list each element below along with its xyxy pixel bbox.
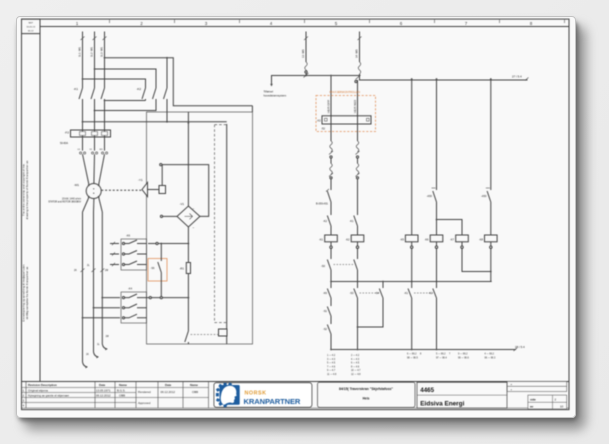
wires to terminals [82,137,84,151]
svg-text:7: 7 [465,21,468,26]
rotor cable marks [81,269,105,273]
reference rows top right [507,382,567,392]
svg-text:-K1: -K1 [349,219,354,223]
svg-text:4 — 4.3: 4 — 4.3 [351,359,360,361]
interlock contact K2 [327,214,331,235]
svg-text:4 — 96.2: 4 — 96.2 [485,354,495,356]
rectifier DC minus lead [163,215,177,217]
interlock contact K1 [354,179,358,235]
svg-text:V1: V1 [90,149,93,151]
svg-text:-K2: -K2 [136,87,141,91]
svg-text:8: 8 [420,354,422,356]
page number box [528,395,567,409]
motor leads top [83,154,90,185]
svg-text:1: 1 [23,389,25,393]
brake feed from L3 branch [167,58,252,106]
svg-text:W1: W1 [100,149,104,151]
top-left stamp texts [26,22,36,32]
rotor wire M [102,212,107,349]
svg-text:-K5: -K5 [400,238,405,242]
svg-text:5: 5 [335,21,338,26]
svg-text:6: 6 [400,21,403,26]
svg-text:7: 7 [449,354,451,356]
svg-text:~: ~ [193,207,195,211]
contactor K2 contacts [136,84,167,101]
svg-text:10: 10 [560,404,564,408]
svg-text:3 — 4.3: 3 — 4.3 [327,359,336,361]
svg-text:NKP: NKP [28,22,33,24]
bottom bus [331,349,516,351]
svg-text:8: 8 [530,21,533,26]
svg-text:-K7: -K7 [450,238,455,242]
svg-text:1L3 -W1: 1L3 -W1 [100,46,104,57]
svg-text:Name: Name [119,383,127,387]
svg-text:-S3: -S3 [349,291,354,295]
svg-text:06-12: 06-12 [28,30,34,32]
left rung lower contacts [327,282,331,305]
svg-text:-M1: -M1 [74,183,79,187]
svg-text:HEIS OPP: HEIS OPP [327,100,331,113]
link row to aux block [148,243,156,245]
svg-text:FRA FJERNKONTROLLEN: FRA FJERNKONTROLLEN [330,90,361,94]
svg-text:97 — 96.4: 97 — 96.4 [436,358,447,360]
svg-text:-K6: -K6 [323,291,328,295]
svg-text:3: 3 [23,399,25,403]
svg-text:U1: U1 [78,149,82,151]
enclosure box [147,112,253,344]
svg-text:side: side [530,397,536,401]
svg-text:hovedstrømsystem: hovedstrømsystem [264,94,287,98]
svg-text:6 — 4.5: 6 — 4.5 [351,363,360,365]
svg-text:B-059-A51: B-059-A51 [316,203,329,206]
branch row3 [83,317,121,319]
svg-text:skriftlig samtykke fra Norsk K: skriftlig samtykke fra Norsk Kranpartner… [25,266,29,319]
svg-text:10 — 4.7: 10 — 4.7 [351,370,361,372]
svg-text:Revision Description: Revision Description [28,383,57,387]
svg-text:3: 3 [205,21,208,26]
branch to aux block K4 row1 [102,297,120,299]
svg-text:-A50: -A50 [427,194,433,198]
feed corner join [251,106,253,112]
below coils [330,242,332,246]
branch row2 [94,307,121,309]
svg-text:06.12.2012: 06.12.2012 [96,394,111,398]
dashed link motor to brake [101,189,142,191]
logo gear tile with head profile [216,382,240,407]
svg-text:-X2: -X2 [317,118,322,122]
svg-text:-K8: -K8 [479,238,484,242]
top control bus [306,76,528,81]
K2 return wires [105,100,146,102]
right rung 1 [411,79,413,235]
branch L1 to K2 [83,79,146,84]
aux contact block lower [121,287,147,324]
cable slash marks [81,37,107,41]
feed cable labels [301,49,359,58]
svg-text:-S0: -S0 [321,264,326,268]
branch to rung 3 [437,220,463,236]
svg-text:Date: Date [165,383,172,387]
orange highlight small [148,259,167,282]
svg-text:-R1: -R1 [179,267,184,271]
svg-text:/52: /52 [322,128,326,131]
arrow to main supply [272,76,307,85]
coil K1 [325,235,338,242]
terminals X1 [80,152,108,154]
svg-text:1 — 4.2: 1 — 4.2 [327,355,336,357]
svg-text:1: 1 [76,21,79,26]
svg-text:-K1: -K1 [73,87,78,91]
rung S4 [358,282,384,328]
svg-text:Nytegning av gamle el skjemaer: Nytegning av gamle el skjemaer [28,394,69,398]
svg-text:27 / 5.4: 27 / 5.4 [512,75,522,79]
contactor K1 contacts [73,84,104,104]
control feed wire U [305,32,307,63]
svg-text:11 — 4.8: 11 — 4.8 [327,374,337,376]
svg-text:8 — 4.6: 8 — 4.6 [351,366,360,368]
svg-text:OBB: OBB [192,390,198,394]
svg-text:2: 2 [23,394,25,398]
overload relay F2 [71,130,111,137]
coil K6 [430,235,443,242]
emergency stop contact [327,179,331,214]
rectifier V1 [177,206,200,227]
svg-text:-F2: -F2 [65,131,70,135]
svg-text:4: 4 [270,21,273,26]
mains continue to F2 [82,104,84,130]
branch L2 to K2 [95,69,157,84]
svg-text:4: 4 [23,404,25,408]
rung wires below strip [330,124,332,141]
revision table [22,382,570,409]
svg-text:Original skjema: Original skjema [28,389,48,393]
svg-text:1K: 1K [86,354,89,356]
svg-text:9 — 96.2: 9 — 96.2 [458,354,468,356]
svg-text:KRANPARTNER: KRANPARTNER [244,397,301,406]
svg-text:-Y1: -Y1 [138,178,143,182]
customer box [417,382,507,408]
svg-text:1L: 1L [97,344,100,346]
svg-text:Approved: Approved [138,401,151,405]
brake resistor R1 [187,227,189,263]
svg-text:-K6: -K6 [126,234,131,238]
svg-text:Eidsiva Energi: Eidsiva Energi [420,400,464,407]
control feed wire V [359,32,361,63]
svg-text:Tilførsel: Tilførsel [264,90,274,94]
wire down inside duct [226,124,228,329]
svg-text:13 -W5: 13 -W5 [301,49,305,58]
brake micro switch [160,243,162,245]
svg-text:7 — 4.6: 7 — 4.6 [327,366,336,368]
svg-text:5 — 96.2: 5 — 96.2 [436,354,446,356]
svg-text:-K2: -K2 [323,219,328,223]
rectifier feed vertical [187,112,189,206]
svg-text:98 — 96.5: 98 — 96.5 [407,358,418,360]
svg-text:-A50: -A50 [481,194,487,198]
dashed actuator link [191,334,219,336]
svg-text:12 — 4.8: 12 — 4.8 [351,374,361,376]
drops to remote box [330,76,332,116]
remote control highlight box [316,96,376,132]
cable label W1 [78,46,104,57]
svg-text:99 — 96.6: 99 — 96.6 [458,358,469,360]
motor leads bottom [83,197,90,212]
svg-text:-S2: -S2 [323,327,328,331]
svg-text:-S6: -S6 [151,267,156,270]
svg-text:HEIS NED: HEIS NED [353,100,357,113]
brake Y1 [142,183,148,197]
svg-text:2 — 4.2: 2 — 4.2 [351,355,360,357]
terminal reference texts [327,354,496,376]
motor M1 [86,184,101,199]
svg-text:13-05-13: 13-05-13 [26,26,36,28]
drawing frame [22,19,570,410]
rotor wire L [94,212,99,357]
supply wire L2 [94,32,96,85]
svg-text:84/15( Traverskran "Skjefstafo: 84/15( Traverskran "Skjefstafoss" [339,387,393,391]
svg-text:Rendered: Rendered [138,390,151,394]
contacts below mid bus right [408,282,412,350]
svg-text:2: 2 [140,21,143,26]
limit switch contact [185,331,189,342]
brake feed tap [83,121,227,123]
svg-text:drawing is the property of Nor: drawing is the property of Norsk Kranpar… [25,160,29,219]
coil K2 [351,235,364,242]
inner dashed partition [214,125,216,323]
svg-text:9 — 4.7: 9 — 4.7 [327,370,336,372]
svg-text:-K4: -K4 [128,287,133,291]
right rung 4 with timer contact [487,79,491,235]
svg-text:B.G.S.: B.G.S. [117,389,126,393]
svg-text:-K1: -K1 [404,291,409,295]
svg-text:-K1: -K1 [319,238,324,242]
svg-text:6 — 96.2: 6 — 96.2 [407,354,417,356]
svg-text:2L: 2L [87,265,90,267]
S0 linked contacts [327,258,331,282]
supply wire L1 [82,32,84,85]
svg-text:1M: 1M [106,336,109,338]
below right coils [411,242,413,246]
project title box [318,382,416,407]
svg-text:1L1 -W1: 1L1 -W1 [78,46,82,57]
svg-text:06.12.2012: 06.12.2012 [161,390,176,394]
svg-text:14 -W5: 14 -W5 [355,49,359,58]
terminal strip X2 [322,116,371,124]
branch L3 to K2 [105,58,168,84]
sidebar copyright text [22,160,30,322]
svg-text:OBB: OBB [119,394,125,398]
actuator box [219,329,228,336]
svg-text:96 — 96.3: 96 — 96.3 [485,358,496,360]
rotor wire K [83,212,88,367]
svg-text:13.05.1971: 13.05.1971 [96,389,111,393]
svg-text:NORSK: NORSK [245,391,267,397]
rung S3 [354,282,358,350]
column numbers [76,21,533,26]
aux contact block upper [110,234,147,271]
svg-text:4465: 4465 [420,387,434,394]
logo box [214,383,312,408]
svg-text:5 — 4.5: 5 — 4.5 [327,363,336,365]
svg-text:-K2: -K2 [345,238,350,242]
brake DC wires [161,165,163,186]
svg-text:50-80A: 50-80A [60,142,68,145]
svg-text:1L2 -W1: 1L2 -W1 [90,46,94,57]
svg-text:STATOR and ROTOR 380/380V: STATOR and ROTOR 380/380V [48,201,81,204]
svg-text:2M: 2M [105,270,108,272]
svg-text:23 kW, 1440 o/min: 23 kW, 1440 o/min [62,199,82,201]
mid bus [331,281,492,283]
svg-text:Heis: Heis [363,397,370,401]
svg-text:Name: Name [190,383,198,387]
coil K7 [456,235,469,242]
svg-text:-K6: -K6 [424,238,429,242]
coil K8 [485,235,498,242]
svg-text:Date: Date [99,383,106,387]
right rung 2 with timer contact [433,79,437,220]
supply wire L3 [104,32,106,85]
svg-text:-S1: -S1 [323,309,328,313]
svg-text:av: av [530,404,534,408]
svg-text:-V1: -V1 [180,202,185,206]
svg-text:~: ~ [193,226,195,230]
svg-text:2K: 2K [74,270,77,272]
coil K5 [405,235,418,242]
